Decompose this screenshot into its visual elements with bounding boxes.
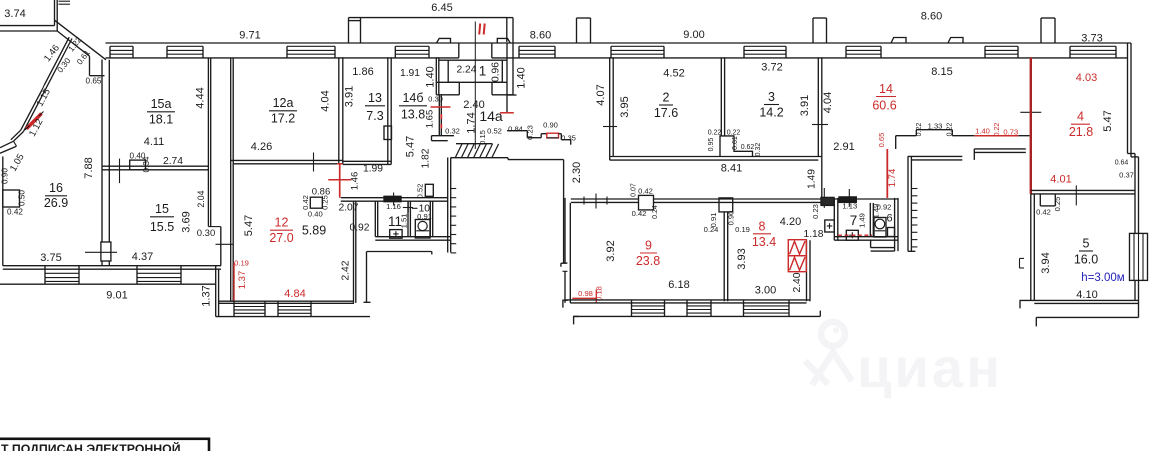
sink room11 <box>390 230 402 239</box>
svg-text:17.6: 17.6 <box>654 106 678 120</box>
svg-text:0.18: 0.18 <box>595 286 604 301</box>
svg-text:0.22: 0.22 <box>727 130 741 137</box>
detached wall above core <box>974 148 1026 150</box>
svg-text:4.07: 4.07 <box>595 84 607 105</box>
svg-text:4.03: 4.03 <box>1076 72 1097 84</box>
core shaft top wall <box>908 155 962 157</box>
door red on diagonal wall <box>27 114 42 129</box>
svg-text:3.94: 3.94 <box>1040 252 1052 273</box>
svg-text:3: 3 <box>768 90 775 104</box>
balcony window right <box>1130 233 1148 280</box>
svg-text:5: 5 <box>1083 237 1090 251</box>
notch below divider <box>1039 194 1041 206</box>
wall diagonal chamfer inner <box>57 31 89 56</box>
svg-text:0.07: 0.07 <box>630 183 637 197</box>
window W10 top wall <box>1069 46 1071 58</box>
svg-text:2.42: 2.42 <box>341 260 352 280</box>
toilet WC6 <box>874 218 886 238</box>
svg-text:4.01: 4.01 <box>1050 174 1071 186</box>
wall top-left vertical to edge <box>54 0 56 26</box>
wall 15 right below step <box>220 227 222 266</box>
svg-text:0.25: 0.25 <box>1053 197 1062 212</box>
room 12 right wall <box>353 201 355 303</box>
svg-text:0.90: 0.90 <box>726 211 735 226</box>
svg-text:13.4: 13.4 <box>752 235 776 249</box>
room1 bottom wall with opening <box>436 81 459 83</box>
wall room5 left <box>1030 194 1032 301</box>
svg-text:3.91: 3.91 <box>799 95 811 116</box>
wall divider 15a/15 <box>102 165 208 167</box>
svg-text:9.00: 9.00 <box>683 29 704 41</box>
svg-text:1.18: 1.18 <box>803 229 823 240</box>
svg-text:2: 2 <box>663 91 670 105</box>
svg-text:0.62: 0.62 <box>741 144 755 151</box>
svg-text:8: 8 <box>759 220 766 234</box>
red marks on wall 14b|14a <box>440 114 442 119</box>
red wall room12 top right <box>339 164 341 197</box>
room1 inner box <box>439 59 507 61</box>
svg-text:0.22: 0.22 <box>916 123 923 137</box>
wall right jog <box>1128 153 1136 155</box>
wall 13 bottom <box>343 160 391 162</box>
wall 13|14b <box>387 57 389 164</box>
svg-text:1.99: 1.99 <box>363 164 383 175</box>
svg-text:3.95: 3.95 <box>619 96 631 117</box>
window W4 top wall <box>394 46 396 58</box>
svg-text:0.96: 0.96 <box>491 62 502 82</box>
wall room2|3 divider <box>720 57 722 136</box>
svg-text:0.61: 0.61 <box>732 136 739 150</box>
svg-text:1.86: 1.86 <box>352 66 373 78</box>
wall room9 left with opening <box>564 198 566 263</box>
chimney shaft above wall x1041 <box>1040 18 1042 43</box>
svg-text:15: 15 <box>155 202 169 216</box>
red tick on wall 14b|14a <box>431 106 451 108</box>
svg-text:0.50: 0.50 <box>18 190 27 206</box>
red wall segment 1.40 <box>974 135 1018 137</box>
svg-text:1.37: 1.37 <box>237 271 248 290</box>
sink WC7 bottom <box>846 230 858 240</box>
wall wing jamb to left edge <box>0 141 14 148</box>
svg-text:3.72: 3.72 <box>761 62 782 74</box>
wall 14a bottom thick piece <box>432 135 455 137</box>
wall WC6 right <box>894 198 896 251</box>
tick corridor right <box>823 188 825 208</box>
wall room9|8 <box>723 212 725 301</box>
red wall room12 bottom left <box>233 263 235 302</box>
svg-text:5.47: 5.47 <box>243 215 255 236</box>
wall top exterior face lower <box>106 57 459 59</box>
tick east end outer line <box>819 311 821 317</box>
wall right exterior upper <box>1127 43 1129 154</box>
svg-text:1: 1 <box>479 64 487 79</box>
WC block walls <box>374 201 376 237</box>
svg-text:3.73: 3.73 <box>1081 33 1102 45</box>
wall room16 left <box>2 157 4 266</box>
svg-text:0.90: 0.90 <box>543 121 558 130</box>
svg-text:1.40: 1.40 <box>425 66 437 87</box>
tick at WC11 door <box>393 193 395 206</box>
svg-text:h=3.00м: h=3.00м <box>1081 272 1124 284</box>
duct box room12 corner <box>310 197 322 208</box>
svg-text:0.64: 0.64 <box>1115 160 1129 167</box>
svg-text:1.16: 1.16 <box>386 202 401 211</box>
svg-text:1.40: 1.40 <box>975 127 990 136</box>
svg-text:4.26: 4.26 <box>251 141 272 153</box>
svg-text:27.0: 27.0 <box>269 231 293 245</box>
svg-text:4.11: 4.11 <box>144 136 165 148</box>
stepped wall room14 south <box>895 136 897 149</box>
tick on wall x220 y244 <box>216 243 234 245</box>
window W1 top wall <box>109 46 111 58</box>
wall diagonal chamfer outer <box>55 20 107 60</box>
svg-text:21.8: 21.8 <box>1069 125 1093 139</box>
tick on room3 right wall <box>812 124 828 126</box>
tick corridor door axis <box>595 194 597 209</box>
window mark top edge <box>59 0 71 2</box>
core shaft stair ticks <box>911 188 917 190</box>
wall room4|5 divider <box>1031 189 1135 191</box>
wall WC7 left <box>833 198 835 240</box>
svg-text:4.20: 4.20 <box>780 216 801 228</box>
svg-text:Т ПОДПИСАН ЭЛЕКТРОННОЙ: Т ПОДПИСАН ЭЛЕКТРОННОЙ <box>1 441 181 451</box>
svg-text:0.42: 0.42 <box>7 208 23 217</box>
svg-text:0.37: 0.37 <box>1119 171 1134 180</box>
stairwell top wall <box>451 157 508 159</box>
svg-text:2.74: 2.74 <box>163 156 183 167</box>
svg-text:циан: циан <box>857 336 1003 399</box>
window bottom left 1 <box>44 266 46 285</box>
svg-text:2.40: 2.40 <box>792 272 803 292</box>
radiator zigzag red 2 <box>788 256 806 272</box>
window W9 top wall <box>984 46 986 58</box>
svg-text:12a: 12a <box>273 96 294 110</box>
stairwell right wall foot <box>561 262 567 264</box>
wall top-left horizontal <box>0 25 55 27</box>
svg-text:0.35: 0.35 <box>561 134 576 143</box>
svg-text:4.84: 4.84 <box>284 288 305 300</box>
vent mark on wall near 8.60 <box>891 38 906 44</box>
door red small 0.90 <box>547 133 559 138</box>
door bold WC7 <box>839 197 856 203</box>
wall room8 right <box>806 240 808 301</box>
svg-text:0.25: 0.25 <box>320 195 329 210</box>
window W2 top wall <box>166 46 168 58</box>
chimney shaft above wall x813 <box>812 18 814 43</box>
entrance block outer wall <box>348 18 350 43</box>
svg-text:5.89: 5.89 <box>302 224 326 238</box>
svg-text:4.04: 4.04 <box>822 92 834 113</box>
svg-text:5.47: 5.47 <box>405 136 417 157</box>
svg-text:0.95: 0.95 <box>708 138 715 152</box>
svg-text:0.19: 0.19 <box>234 259 249 268</box>
svg-text:1.65: 1.65 <box>425 110 436 129</box>
svg-text:6.45: 6.45 <box>431 2 452 14</box>
window W7 top wall <box>743 46 745 58</box>
wall room1 right foot <box>506 43 508 95</box>
svg-text:0.23: 0.23 <box>811 204 820 219</box>
svg-text:9.01: 9.01 <box>106 290 127 302</box>
svg-text:0.92: 0.92 <box>877 203 892 212</box>
pier dark corridor right <box>821 197 834 205</box>
pier box on wall 13|14b <box>384 126 392 140</box>
balcony outline room5 <box>1036 316 1138 318</box>
wall bottom left block outer face <box>0 283 216 285</box>
svg-text:8.15: 8.15 <box>931 66 952 78</box>
svg-text:17.2: 17.2 <box>271 112 295 126</box>
svg-text:1.91: 1.91 <box>400 68 420 79</box>
stairwell stair ticks <box>451 188 457 190</box>
window bottom left 2 <box>136 266 138 285</box>
step 0.30 on wall <box>208 226 220 228</box>
tick corridor 1 <box>583 197 585 205</box>
svg-text:0.34: 0.34 <box>142 156 151 172</box>
wall wing lower corner <box>14 132 24 142</box>
svg-text:4.44: 4.44 <box>195 87 207 108</box>
core shaft bottom foot <box>908 250 915 252</box>
toilet room10 <box>415 220 430 239</box>
svg-text:3.69: 3.69 <box>181 211 193 232</box>
svg-text:8.41: 8.41 <box>721 163 742 175</box>
svg-text:0.42: 0.42 <box>1036 208 1051 217</box>
svg-text:0.22: 0.22 <box>708 130 722 137</box>
jamb corner room5 bottom west <box>1019 300 1021 308</box>
svg-text:0.24: 0.24 <box>652 205 659 219</box>
wall top exterior face upper <box>106 42 1132 44</box>
svg-text:15a: 15a <box>151 97 172 111</box>
tick on divider wall <box>1075 185 1077 205</box>
core shaft corner piece <box>973 149 975 160</box>
core shaft left wall <box>907 156 909 251</box>
wall room3 right <box>817 57 819 156</box>
svg-text:14: 14 <box>879 82 893 96</box>
svg-text:12: 12 <box>275 216 289 230</box>
svg-text:5.47: 5.47 <box>1102 110 1114 131</box>
svg-text:1.74: 1.74 <box>466 112 478 133</box>
svg-text:13: 13 <box>368 91 382 105</box>
svg-text:1.40: 1.40 <box>516 67 528 88</box>
window W8 top wall <box>845 46 847 58</box>
vent mark right of entrance <box>497 38 510 43</box>
wall chamfer notch <box>89 56 91 75</box>
section mark II red <box>479 24 480 35</box>
tick on room2 left wall <box>603 126 617 128</box>
svg-text:0.52: 0.52 <box>487 127 502 136</box>
window mid bottom 1 <box>233 301 235 316</box>
wall between 16 and 15a/15 <box>101 60 103 243</box>
svg-text:1.49: 1.49 <box>807 169 818 189</box>
wall mid block bottom faces <box>219 300 354 302</box>
tick WC7 door <box>848 189 850 207</box>
svg-text:0.65: 0.65 <box>86 77 102 86</box>
window W5 top wall <box>518 46 520 58</box>
wall room1 left <box>435 57 437 95</box>
svg-text:6.18: 6.18 <box>668 279 689 291</box>
svg-text:2.24: 2.24 <box>456 65 476 76</box>
svg-text:15.5: 15.5 <box>150 220 174 234</box>
vent mark second near 8.60 <box>948 38 963 44</box>
radiator zigzag red 1 <box>788 240 806 256</box>
wall 9/8 bottom outer line <box>574 315 821 317</box>
tick on divider 15a/15 <box>119 159 121 184</box>
svg-text:8.60: 8.60 <box>921 11 942 23</box>
shaft box right of WC10 <box>425 184 433 196</box>
svg-text:7.88: 7.88 <box>83 157 95 178</box>
window 9/8 bottom 1 <box>631 300 633 317</box>
wall room5 bottom faces <box>1020 299 1139 301</box>
tick crossing red wall room4 <box>1020 111 1041 113</box>
svg-text:0.30: 0.30 <box>197 228 216 239</box>
svg-text:0.98: 0.98 <box>578 289 593 298</box>
wall corridor upper face <box>571 198 898 200</box>
pier box on divider 15a/15 <box>130 160 146 170</box>
svg-text:0.15: 0.15 <box>478 130 487 145</box>
window mid bottom 2 <box>277 301 279 316</box>
svg-text:1.13: 1.13 <box>842 202 857 211</box>
svg-text:1.49: 1.49 <box>858 213 867 228</box>
wall WC7|6 divider <box>869 203 871 237</box>
red wall below room14 <box>886 149 888 198</box>
svg-text:1.82: 1.82 <box>421 148 432 168</box>
window 9/8 bottom 3 <box>743 300 745 317</box>
wall thick 15a|12a left line pair <box>207 58 209 227</box>
sink outside WC7 left <box>825 220 835 232</box>
svg-text:16.0: 16.0 <box>1074 253 1098 267</box>
wall right exterior lower <box>1134 154 1136 234</box>
wall mid block bottom outer <box>216 316 370 318</box>
svg-text:0.40: 0.40 <box>308 210 323 219</box>
svg-text:9: 9 <box>645 239 652 253</box>
stairwell entry hatch <box>456 143 493 145</box>
svg-text:3.92: 3.92 <box>605 240 617 261</box>
wall bottom left block inner faces <box>3 265 221 267</box>
tick corridor 2 <box>606 197 608 205</box>
pier room2|3 bottom <box>720 136 753 157</box>
svg-text:1.51: 1.51 <box>399 214 408 229</box>
pier box corridor <box>639 195 654 210</box>
svg-text:13.8: 13.8 <box>401 108 425 122</box>
window 9/8 bottom 2 <box>686 300 688 317</box>
wall mid block west <box>215 266 217 317</box>
svg-text:14a: 14a <box>479 108 503 124</box>
svg-text:0.52: 0.52 <box>415 184 424 199</box>
jamb corner west <box>563 300 568 307</box>
svg-text:4.52: 4.52 <box>663 68 684 80</box>
wall WC bottom <box>834 236 898 238</box>
entrance door opening jambs <box>458 43 460 58</box>
svg-text:16: 16 <box>49 181 63 195</box>
wall room9|8 pier <box>719 198 733 212</box>
svg-text:0.22: 0.22 <box>994 123 1001 137</box>
svg-text:6: 6 <box>886 213 892 225</box>
red dashed line WC <box>838 234 872 236</box>
signature box <box>0 439 209 451</box>
svg-text:1.37: 1.37 <box>201 285 213 306</box>
balcony door bracket room5 left <box>1019 258 1021 268</box>
svg-text:8.60: 8.60 <box>530 30 551 42</box>
pier box on left wall room16 <box>3 190 20 207</box>
watermark pin icon <box>805 322 852 385</box>
svg-text:60.6: 60.6 <box>872 99 896 113</box>
wall room2 left <box>609 57 611 160</box>
svg-text:0.73: 0.73 <box>1003 128 1018 137</box>
svg-text:4.04: 4.04 <box>320 90 332 111</box>
svg-text:3.93: 3.93 <box>736 248 748 269</box>
red wall room4 left <box>1030 57 1032 194</box>
wall rooms 2-3 bottom <box>610 156 822 158</box>
svg-text:3.74: 3.74 <box>4 8 25 20</box>
wall 12a|13 <box>338 57 340 164</box>
svg-text:1.46: 1.46 <box>349 172 360 191</box>
svg-text:0.32: 0.32 <box>445 127 460 136</box>
window W6 top wall <box>610 46 612 58</box>
wing diagonal jog tick <box>42 85 44 89</box>
svg-text:9.71: 9.71 <box>239 30 260 42</box>
red tick at 14a right <box>500 112 514 114</box>
svg-text:0.84: 0.84 <box>508 125 523 134</box>
svg-text:0.19: 0.19 <box>735 225 750 234</box>
svg-text:14б: 14б <box>402 91 423 105</box>
svg-text:4.37: 4.37 <box>132 251 153 263</box>
red tick crossing red wall <box>328 179 351 181</box>
svg-text:14.2: 14.2 <box>759 106 783 120</box>
wall thick 12a left line pair <box>230 58 232 301</box>
svg-text:0.42: 0.42 <box>638 187 653 196</box>
wall corridor top of WC 11/10 <box>341 197 448 199</box>
svg-text:18.1: 18.1 <box>149 113 173 127</box>
svg-text:0.24: 0.24 <box>704 225 719 234</box>
thin outline recess left <box>366 252 368 303</box>
svg-text:3.75: 3.75 <box>40 252 61 264</box>
svg-text:7: 7 <box>850 213 858 228</box>
wall 14a niche path right <box>507 130 527 132</box>
svg-text:0.42: 0.42 <box>632 209 647 218</box>
wall segment below room1 right <box>506 95 508 113</box>
pier with tick on wall 16/15 <box>101 242 111 261</box>
svg-text:0.32: 0.32 <box>755 143 762 157</box>
bidet box <box>888 228 895 237</box>
chimney shaft above wall x576 <box>576 18 578 43</box>
svg-text:3.91: 3.91 <box>344 86 356 107</box>
svg-text:7.3: 7.3 <box>366 109 383 123</box>
window W3 top wall <box>286 46 288 58</box>
wall 14b|14a <box>438 96 440 136</box>
svg-text:2.91: 2.91 <box>833 141 854 153</box>
vent mark left of entrance <box>437 38 451 43</box>
svg-text:1.74: 1.74 <box>887 169 898 188</box>
svg-text:2.30: 2.30 <box>571 162 583 183</box>
wall rooms 9/8 bottom faces <box>565 299 810 301</box>
tick on 12a bottom wall <box>313 153 315 172</box>
cross door room10 <box>403 207 413 209</box>
svg-text:1.33: 1.33 <box>928 122 943 131</box>
wall niche continues <box>559 133 562 135</box>
door pier bold WC11 <box>384 196 401 201</box>
svg-text:2.04: 2.04 <box>196 190 206 207</box>
svg-text:23.8: 23.8 <box>636 254 660 268</box>
stairwell left wall <box>447 158 449 253</box>
svg-text:0.90: 0.90 <box>1 168 10 184</box>
wall 12a bottom <box>231 159 343 161</box>
svg-text:26.9: 26.9 <box>44 196 68 210</box>
svg-text:4: 4 <box>1077 110 1084 124</box>
red line room9 bottom <box>572 297 596 299</box>
stairwell right wall <box>563 160 565 263</box>
section line II vertical <box>474 22 476 150</box>
wall wing thin diagonal <box>24 39 73 132</box>
nook walls <box>871 247 895 249</box>
svg-text:0.92: 0.92 <box>349 223 369 234</box>
